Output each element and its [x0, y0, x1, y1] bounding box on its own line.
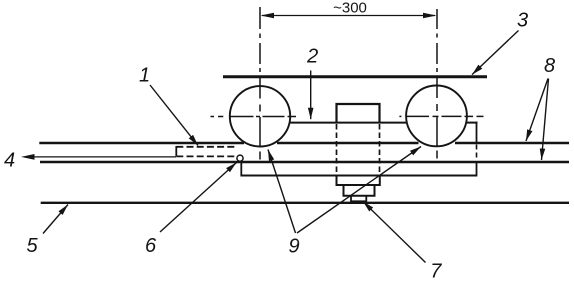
leader 1 — [150, 85, 198, 146]
upper rail 8 — [39, 142, 244, 144]
leader 3 — [472, 31, 519, 75]
carriage right edge — [476, 122, 478, 142]
svg-text:8: 8 — [544, 55, 555, 77]
svg-text:2: 2 — [306, 46, 318, 68]
wheel 9 left — [230, 86, 290, 146]
contact nub 7 — [351, 196, 366, 202]
leader 5 — [43, 205, 68, 234]
lower rail 8 — [40, 161, 569, 163]
svg-text:5: 5 — [26, 235, 38, 257]
block 2 top rectangle — [337, 104, 380, 123]
step 2 of block — [344, 185, 375, 196]
svg-text:9: 9 — [288, 236, 299, 258]
step 1 of block — [337, 177, 380, 186]
dimension line ~300 — [262, 15, 435, 17]
towing line 4 with direction arrow — [34, 156, 176, 158]
svg-text:7: 7 — [430, 261, 442, 281]
bottom wire 5 — [41, 202, 569, 204]
leader 7 — [363, 202, 426, 263]
pivot 6 (small circle) — [237, 155, 243, 161]
svg-text:4: 4 — [4, 150, 15, 172]
top bar 3 — [223, 75, 487, 78]
svg-text:6: 6 — [145, 235, 157, 257]
center line vertical right wheel / dimension extension — [436, 9, 438, 29]
center line horizontal right wheel — [399, 115, 401, 117]
carriage top edge — [291, 122, 407, 124]
svg-text:3: 3 — [517, 10, 528, 32]
wheel 9 right — [406, 86, 467, 147]
carriage left edge — [240, 162, 242, 177]
block hidden edges (dashed) — [336, 124, 338, 175]
svg-text:1: 1 — [139, 65, 150, 87]
leader 9 left — [268, 150, 296, 234]
hidden member 1 (dashed rectangle) — [176, 146, 237, 148]
leader 8 upper — [526, 79, 548, 142]
carriage bottom edge — [241, 175, 476, 177]
leader 8 lower — [542, 79, 549, 161]
center line vertical left wheel / dimension extension — [259, 7, 261, 29]
leader 9 right — [297, 147, 421, 234]
leader 6 — [160, 163, 237, 233]
leader 2 — [310, 71, 312, 120]
center line horizontal left wheel — [211, 116, 215, 118]
svg-text:~300: ~300 — [333, 0, 367, 17]
